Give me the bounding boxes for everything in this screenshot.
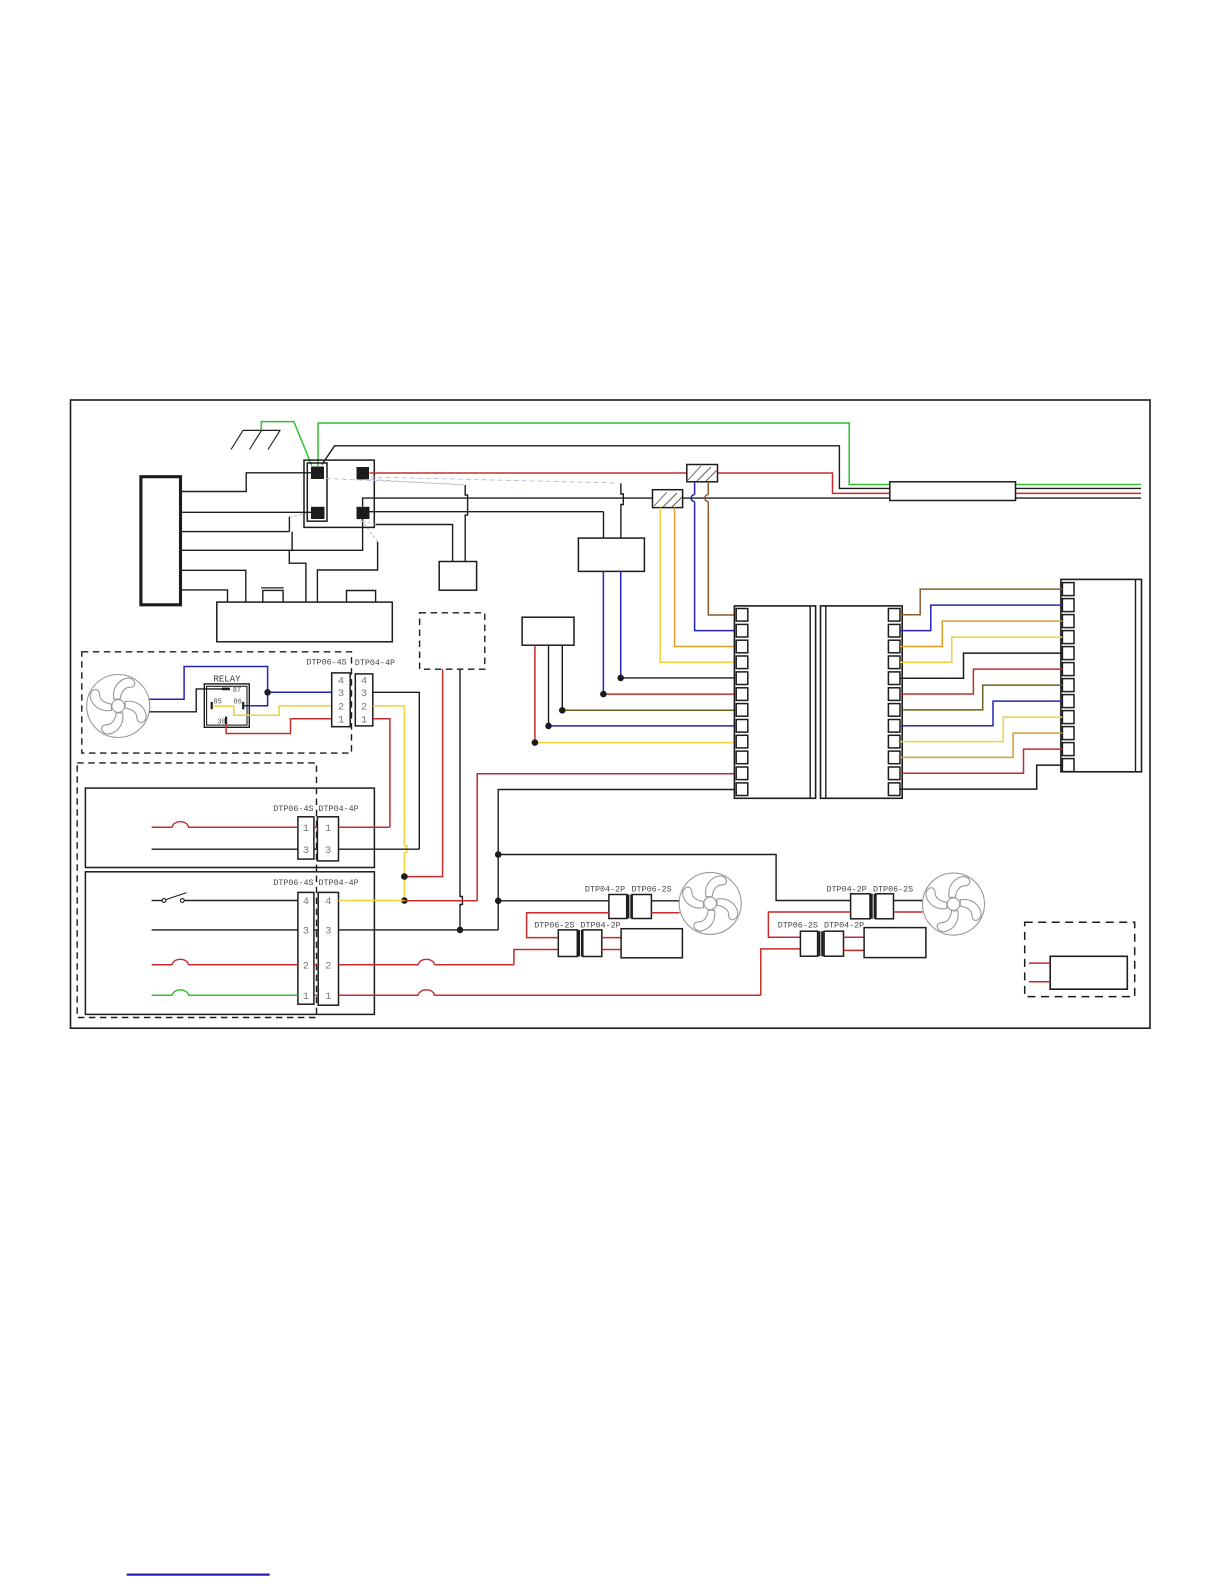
wire red to resistor1 a xyxy=(602,937,621,939)
wire yellow F2 to conn1 pin4 xyxy=(660,508,736,663)
wire red option stub b xyxy=(1029,981,1050,983)
pad terminal 1 xyxy=(311,467,324,480)
wire black DTP04 pin3 down xyxy=(373,692,420,849)
connector block P2 (pins right) xyxy=(821,606,903,798)
junction xyxy=(495,851,502,858)
junction xyxy=(559,707,566,714)
connector DTP04-4P (relay) xyxy=(355,674,373,726)
connector pair DTP04-2P/DTP06-2S (module2 fan) xyxy=(851,894,870,919)
relay pin 87 xyxy=(222,688,230,691)
wire red to fan3 xyxy=(894,911,923,913)
svg-text:86: 86 xyxy=(233,698,241,706)
junction xyxy=(617,675,624,682)
wire down to box A pin1 xyxy=(603,512,605,538)
svg-text:DTP04-2P: DTP04-2P xyxy=(581,921,621,931)
wire P2 pin4 to P3 pin4 xyxy=(900,637,1062,662)
switch row4 xyxy=(152,900,162,902)
wire orange F2 to conn1 pin3 xyxy=(675,508,737,647)
relay K1 xyxy=(204,684,249,727)
wire battery lead 3 xyxy=(181,531,290,533)
wire yellow conn1 pin9 xyxy=(535,742,736,744)
wire red row1 right xyxy=(314,994,318,996)
junction row3 xyxy=(457,927,464,934)
svg-text:2: 2 xyxy=(338,702,344,714)
wire yellow relay 85 to conn 2 xyxy=(213,706,332,715)
svg-text:2: 2 xyxy=(303,960,309,972)
fuse box tab 1 xyxy=(261,587,284,589)
fan motor 3 xyxy=(923,873,985,935)
leader lines pads to looms xyxy=(370,477,618,483)
wire red sub1 row1 xyxy=(152,826,173,828)
wire green ground to connector pad1 xyxy=(261,422,312,466)
svg-text:DTP06-4S: DTP06-4S xyxy=(307,658,347,668)
connector DTP04-4P (sub1) xyxy=(317,817,338,861)
connector DTP04-4P (sub2) xyxy=(318,892,338,1005)
svg-text:3: 3 xyxy=(325,926,331,938)
svg-text:2: 2 xyxy=(361,702,367,714)
connector block P3 xyxy=(1061,579,1142,771)
svg-text:1: 1 xyxy=(325,823,331,835)
wire red row2 xyxy=(152,964,173,966)
wire black feed fan module2 xyxy=(498,855,850,901)
wire red module drop xyxy=(404,669,442,876)
junction blue xyxy=(264,689,271,696)
wire battery to pad3 xyxy=(181,511,312,513)
svg-text:1: 1 xyxy=(338,714,344,726)
connector pair DTP04-2P/DTP06-2S (module1 fan) xyxy=(609,895,627,919)
wire black conn1 pin12 xyxy=(498,790,736,930)
wire red option stub a xyxy=(1029,962,1050,964)
svg-text:DTP06-4S: DTP06-4S xyxy=(273,878,313,888)
relay pin 86 xyxy=(242,702,244,709)
junction xyxy=(495,898,502,905)
svg-text:DTP06-4S: DTP06-4S xyxy=(273,804,313,814)
relay pin 30 xyxy=(225,717,227,725)
connector J1 outer box xyxy=(304,460,374,527)
junction xyxy=(545,723,552,730)
svg-text:3: 3 xyxy=(338,688,344,700)
battery xyxy=(141,477,181,605)
ground xyxy=(243,429,281,431)
wire blue box A out1 xyxy=(602,571,604,694)
wire red to resistor2 a xyxy=(844,936,865,938)
wire blue F1 to conn1 pin2 xyxy=(694,482,696,495)
wire green row1 xyxy=(152,994,173,996)
wire red to resistor1 b xyxy=(602,949,621,951)
svg-text:4: 4 xyxy=(338,676,344,688)
svg-text:4: 4 xyxy=(303,896,309,908)
wire battery to pad1 xyxy=(181,473,312,492)
wire red to resistor2 b xyxy=(844,949,865,951)
svg-text:1: 1 xyxy=(303,991,309,1003)
sub assembly 2 xyxy=(85,872,374,1015)
connector DTP06-4S (sub1) xyxy=(298,817,314,859)
pad terminal 4 xyxy=(357,507,370,519)
fuse F2 xyxy=(653,490,683,508)
wire P2 pin5 to P3 pin5 xyxy=(900,653,1062,678)
wire black to fan3 xyxy=(894,900,923,902)
wire red conn1 pin6 xyxy=(603,693,736,695)
fan motor 2 xyxy=(679,872,741,934)
junction yellow-red xyxy=(401,873,408,880)
connector DTP06-4S (sub2) xyxy=(298,892,314,1004)
svg-text:DTP04-4P: DTP04-4P xyxy=(355,658,395,668)
wire P2 pin2 to P3 pin2 xyxy=(900,605,1062,631)
pad terminal 2 xyxy=(357,467,370,479)
svg-text:DTP06-2S: DTP06-2S xyxy=(873,885,913,895)
wire black feed fan module1 xyxy=(498,900,609,902)
svg-text:3: 3 xyxy=(325,845,331,857)
leader pad4 xyxy=(361,520,378,542)
wire pad4 to box A xyxy=(370,511,604,513)
junction xyxy=(600,691,607,698)
connector block P1 (pins left) xyxy=(734,606,815,798)
wire battery to fusebox a xyxy=(181,570,246,602)
wire branch to fusebox xyxy=(289,550,306,602)
wire red DTP04 pin1 down xyxy=(373,719,390,827)
svg-text:DTP04-4P: DTP04-4P xyxy=(319,804,359,814)
connector DTP06-4S (relay) xyxy=(332,673,351,727)
wire olive conn1 pin7 xyxy=(562,709,736,711)
dashed module (optional unit) xyxy=(420,613,485,669)
resistor load 1 xyxy=(621,929,682,958)
wire join leads 3-4 xyxy=(291,532,293,551)
wire black pad1 to right edge xyxy=(322,446,1141,489)
wire loom drop to box A pin2 xyxy=(621,483,623,538)
wire red box C out1 xyxy=(534,645,536,742)
wire red pad2 to right edge xyxy=(370,473,1142,493)
svg-text:1: 1 xyxy=(325,991,331,1003)
wire blue fan to relay 86 and conn 3 xyxy=(150,667,268,700)
wire yellow row4 right xyxy=(339,900,405,902)
pad terminal 3 xyxy=(311,507,325,519)
wire green pad1 to right edge xyxy=(318,423,1141,485)
wire box C out3 xyxy=(561,645,563,710)
svg-text:1: 1 xyxy=(303,823,309,835)
svg-text:DTP04-2P: DTP04-2P xyxy=(824,921,864,931)
resistor load 2 xyxy=(864,928,926,958)
leader pad3 xyxy=(289,514,308,517)
wire black to fan2 xyxy=(651,900,679,902)
sub assembly 1 xyxy=(85,788,374,867)
wire red module2 link xyxy=(768,912,850,937)
wire P2 pin9 to P3 pin9 xyxy=(900,717,1062,742)
connector pair DTP06-2S/DTP04-2P (module1 resistor) xyxy=(558,930,577,957)
option module box xyxy=(1050,956,1127,989)
svg-text:1: 1 xyxy=(361,714,367,726)
svg-text:3: 3 xyxy=(303,926,309,938)
box A (sensor) xyxy=(578,538,644,571)
junction yellow row4 xyxy=(401,897,408,904)
wire P2 pin6 to P3 pin6 xyxy=(900,669,1062,694)
wire battery to fusebox b xyxy=(181,590,228,602)
connector pair DTP06-2S/DTP04-2P (module2 resistor) xyxy=(800,931,817,956)
footer blue rule xyxy=(127,1573,270,1575)
svg-text:DTP04-2P: DTP04-2P xyxy=(827,885,867,895)
wire P2 pin12 to P3 pin12 xyxy=(900,765,1062,789)
wire black sub1 row3 xyxy=(152,848,298,850)
svg-text:4: 4 xyxy=(361,676,367,688)
wire loom to box B pin1 xyxy=(376,525,453,562)
wire red conn1 pin11 xyxy=(477,774,736,901)
junction xyxy=(532,739,539,746)
dashed enclosure switches xyxy=(77,763,316,1018)
dashed enclosure fan+relay xyxy=(82,652,352,753)
wire P2 pin1 to P3 pin1 xyxy=(900,589,1062,615)
wire P2 pin8 to P3 pin8 xyxy=(900,701,1062,726)
svg-text:DTP06-2S: DTP06-2S xyxy=(632,885,672,895)
wire P2 pin10 to P3 pin10 xyxy=(900,733,1062,757)
wire red module1 link xyxy=(527,913,609,938)
wire brown F1 to conn1 pin1 xyxy=(707,482,709,495)
svg-text:3: 3 xyxy=(361,688,367,700)
wire black module drop xyxy=(460,669,462,930)
wire red relay 30 to conn 1 xyxy=(226,719,332,734)
wire blue box A out2 xyxy=(620,571,622,678)
box B (sensor) xyxy=(439,562,476,591)
fuse box xyxy=(217,602,392,642)
wire yellow DTP04 pin2 down xyxy=(373,705,405,707)
wire conn1 pin5 xyxy=(621,677,737,679)
relay pin 85 xyxy=(211,702,213,709)
wire box C out2 xyxy=(548,645,550,726)
svg-text:85: 85 xyxy=(213,698,221,706)
svg-text:30: 30 xyxy=(217,718,225,726)
dashed option box xyxy=(1025,922,1135,996)
wire blue conn1 pin8 xyxy=(549,725,737,727)
wire P2 pin7 to P3 pin7 xyxy=(900,685,1062,710)
border frame xyxy=(71,400,1151,1028)
wire battery to pad4 xyxy=(181,519,363,550)
wire pad4 to fusebox xyxy=(317,542,377,602)
svg-text:DTP04-2P: DTP04-2P xyxy=(585,885,625,895)
wire red row4 to pin11 drop xyxy=(404,900,477,902)
svg-text:2: 2 xyxy=(325,960,331,972)
wire black pad4 to right edge xyxy=(363,498,1141,507)
wire black row3 xyxy=(152,929,298,931)
connector J1 inner box xyxy=(307,463,327,521)
wire stub to pad3 leader xyxy=(288,517,290,532)
fuse box tab 2 xyxy=(347,591,376,603)
svg-text:DTP06-2S: DTP06-2S xyxy=(778,921,818,931)
svg-text:3: 3 xyxy=(303,845,309,857)
svg-text:DTP04-4P: DTP04-4P xyxy=(319,878,359,888)
fan motor 1 xyxy=(87,675,150,738)
svg-text:4: 4 xyxy=(325,896,331,908)
wire red to fan2 xyxy=(651,912,679,914)
wire black fan to relay 87 xyxy=(150,689,223,712)
fuse F1 xyxy=(687,465,718,482)
inline connector (4-wire) xyxy=(890,482,1016,501)
svg-text:RELAY: RELAY xyxy=(214,675,242,685)
wire loom drop to box B pin2 xyxy=(465,485,467,562)
wire P2 pin3 to P3 pin3 xyxy=(900,621,1062,646)
wire P2 pin11 to P3 pin11 xyxy=(900,749,1062,773)
svg-text:DTP06-2S: DTP06-2S xyxy=(534,921,574,931)
svg-text:87: 87 xyxy=(233,687,241,695)
box C (module) xyxy=(522,617,574,645)
